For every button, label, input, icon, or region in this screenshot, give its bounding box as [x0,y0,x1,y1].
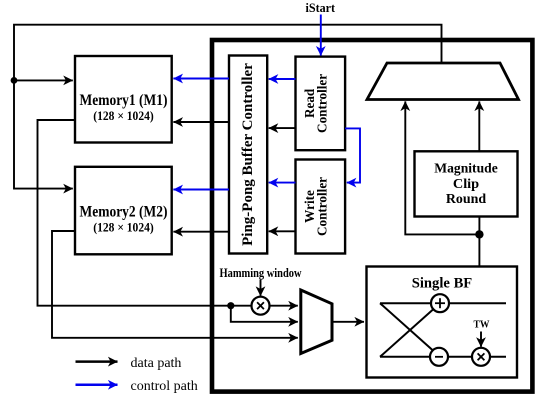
svg-text:Ping-Pong Buffer Controller: Ping-Pong Buffer Controller [240,63,256,246]
svg-text:Round: Round [446,192,487,207]
svg-text:Clip: Clip [453,177,480,192]
svg-text:Single BF: Single BF [412,275,473,291]
svg-text:data path: data path [131,356,182,371]
svg-text:(128 × 1024): (128 × 1024) [93,109,154,123]
svg-text:Controller: Controller [314,74,329,133]
svg-text:control path: control path [131,379,198,394]
svg-text:TW: TW [474,320,490,331]
svg-text:(128 × 1024): (128 × 1024) [93,220,154,234]
svg-text:Memory2 (M2): Memory2 (M2) [80,203,168,220]
svg-text:Controller: Controller [314,177,329,236]
svg-text:iStart: iStart [306,1,336,15]
svg-text:Memory1 (M1): Memory1 (M1) [80,92,168,109]
svg-text:Hamming window: Hamming window [220,266,302,280]
svg-text:Magnitude: Magnitude [434,162,498,177]
